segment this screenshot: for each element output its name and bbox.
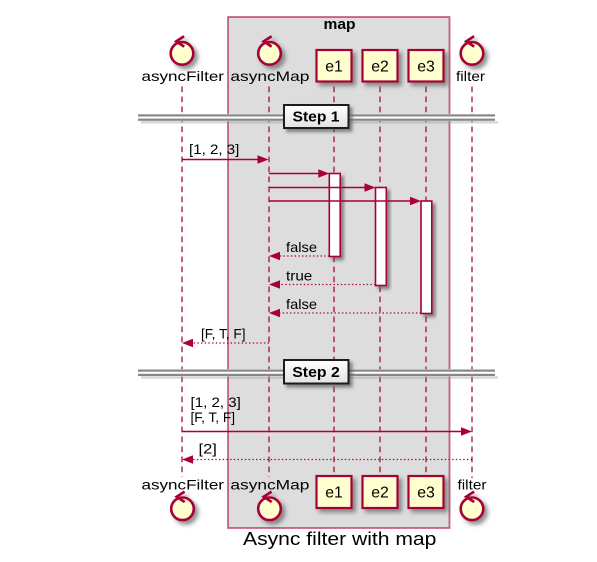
divider Step 2 lines [138,369,495,376]
participant e3 (top box) [409,50,444,82]
participant asyncMap (bottom icon) [258,492,281,520]
svg-text:e3: e3 [417,59,435,76]
svg-text:e3: e3 [417,485,435,502]
svg-text:asyncMap: asyncMap [230,477,309,493]
lifeline e3 [425,87,427,477]
box map (container) [228,17,450,528]
svg-text:Step 2: Step 2 [292,364,340,381]
svg-text:e2: e2 [371,59,389,76]
participant filter (bottom icon) [461,492,484,520]
svg-text:[F, T, F]: [F, T, F] [191,409,236,425]
participant asyncMap (top icon) [258,36,281,65]
message asyncMap->e1 [269,173,320,175]
svg-text:e1: e1 [325,485,343,502]
svg-text:asyncFilter: asyncFilter [142,477,225,493]
message asyncMap->e3 [269,200,412,202]
svg-text:false: false [286,296,317,312]
svg-text:true: true [286,268,313,284]
svg-text:filter: filter [456,68,485,84]
lifeline e1 [333,87,335,477]
svg-text:map: map [324,16,356,33]
lifeline asyncFilter [181,87,183,478]
svg-text:asyncFilter: asyncFilter [142,68,225,84]
participant e3 (bottom box) [409,476,444,508]
svg-text:[1, 2, 3]: [1, 2, 3] [189,141,239,157]
svg-text:Step 1: Step 1 [293,109,340,126]
divider Step 1 label box [284,105,349,128]
activation bar e3 [421,201,432,314]
participant e1 (top box) [317,50,352,82]
activation bar e2 [376,188,387,286]
svg-text:false: false [286,239,317,255]
lifeline e2 [379,87,381,477]
message asyncMap->e2 [269,187,366,189]
participant e1 (bottom box) [317,476,352,508]
divider Step 2 label box [284,360,349,384]
svg-text:filter: filter [458,477,487,493]
lifeline asyncMap [268,87,270,478]
svg-text:Async filter with map: Async filter with map [243,529,436,549]
activation bar e1 [329,174,340,257]
svg-text:e1: e1 [325,59,343,76]
participant asyncFilter (top icon) [171,36,194,65]
divider Step 1 lines [138,114,495,121]
lifeline filter [471,87,473,479]
participant filter (top icon) [461,36,484,65]
svg-text:e2: e2 [371,485,389,502]
svg-text:asyncMap: asyncMap [230,68,309,84]
participant asyncFilter (bottom icon) [171,492,194,520]
participant e2 (top box) [363,50,398,82]
svg-text:[2]: [2] [199,441,217,457]
participant e2 (bottom box) [363,476,398,508]
svg-text:[1, 2, 3]: [1, 2, 3] [191,394,241,410]
svg-text:[F, T, F]: [F, T, F] [201,325,246,341]
